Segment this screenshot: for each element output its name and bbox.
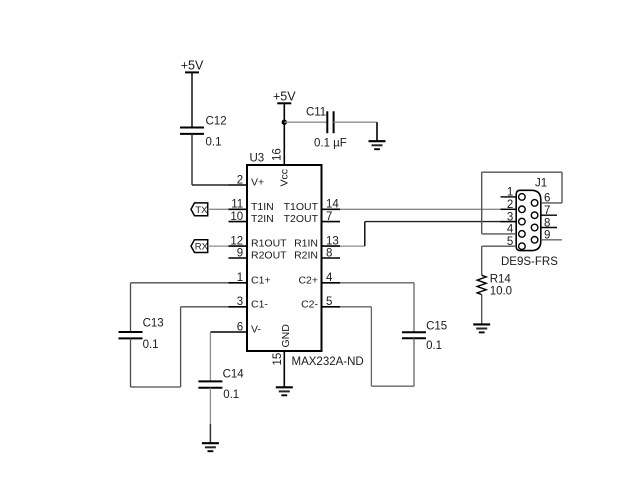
- svg-text:C12: C12: [206, 116, 227, 128]
- svg-text:+5V: +5V: [273, 90, 296, 104]
- svg-text:16: 16: [272, 148, 284, 161]
- svg-text:9: 9: [544, 230, 550, 242]
- svg-text:T2OUT: T2OUT: [284, 213, 319, 225]
- svg-text:R14: R14: [490, 274, 512, 286]
- svg-text:0.1: 0.1: [223, 389, 239, 401]
- svg-text:4: 4: [326, 272, 333, 284]
- svg-text:5: 5: [326, 296, 332, 308]
- svg-text:MAX232A-ND: MAX232A-ND: [292, 356, 364, 368]
- svg-text:C2-: C2-: [301, 298, 318, 310]
- svg-text:T2IN: T2IN: [251, 213, 274, 225]
- svg-text:V+: V+: [251, 177, 264, 189]
- svg-text:C2+: C2+: [298, 274, 318, 286]
- svg-text:5: 5: [507, 236, 513, 248]
- svg-text:C1+: C1+: [251, 274, 271, 286]
- svg-text:R2OUT: R2OUT: [251, 250, 287, 262]
- svg-text:8: 8: [544, 217, 550, 229]
- svg-text:0.1: 0.1: [143, 339, 159, 351]
- svg-text:10.0: 10.0: [490, 286, 512, 298]
- svg-text:V-: V-: [251, 324, 261, 336]
- svg-text:T1IN: T1IN: [251, 201, 274, 213]
- svg-text:R2IN: R2IN: [294, 250, 318, 262]
- svg-text:R1IN: R1IN: [294, 238, 318, 250]
- svg-text:14: 14: [326, 199, 339, 211]
- svg-text:TX: TX: [195, 205, 208, 216]
- svg-text:6: 6: [544, 193, 550, 205]
- svg-text:U3: U3: [250, 153, 265, 165]
- svg-text:0.1 µF: 0.1 µF: [314, 138, 347, 150]
- svg-text:3: 3: [237, 296, 243, 308]
- svg-text:1: 1: [237, 272, 243, 284]
- svg-text:15: 15: [272, 353, 284, 366]
- svg-text:0.1: 0.1: [206, 137, 222, 149]
- svg-text:GND: GND: [280, 324, 292, 348]
- svg-text:7: 7: [326, 211, 332, 223]
- svg-text:10: 10: [230, 211, 243, 223]
- svg-text:2: 2: [237, 174, 243, 186]
- svg-text:J1: J1: [535, 177, 547, 189]
- svg-text:12: 12: [230, 236, 243, 248]
- svg-text:1: 1: [507, 187, 513, 199]
- svg-text:C15: C15: [426, 320, 447, 332]
- svg-text:6: 6: [237, 321, 243, 333]
- svg-text:DE9S-FRS: DE9S-FRS: [501, 256, 558, 268]
- svg-text:4: 4: [507, 224, 514, 236]
- svg-text:Vcc: Vcc: [279, 169, 291, 187]
- svg-text:C1-: C1-: [251, 298, 268, 310]
- svg-text:T1OUT: T1OUT: [284, 201, 319, 213]
- svg-text:RX: RX: [195, 242, 209, 253]
- svg-text:13: 13: [326, 236, 339, 248]
- svg-text:2: 2: [507, 199, 513, 211]
- svg-text:7: 7: [544, 205, 550, 217]
- svg-text:9: 9: [237, 247, 243, 259]
- svg-text:3: 3: [507, 211, 513, 223]
- svg-text:C13: C13: [143, 318, 164, 330]
- svg-text:R1OUT: R1OUT: [251, 238, 287, 250]
- svg-text:C11: C11: [306, 106, 326, 118]
- svg-text:+5V: +5V: [181, 59, 204, 73]
- svg-text:C14: C14: [223, 369, 245, 381]
- svg-text:11: 11: [231, 199, 243, 211]
- svg-text:8: 8: [326, 247, 332, 259]
- svg-text:0.1: 0.1: [426, 340, 442, 352]
